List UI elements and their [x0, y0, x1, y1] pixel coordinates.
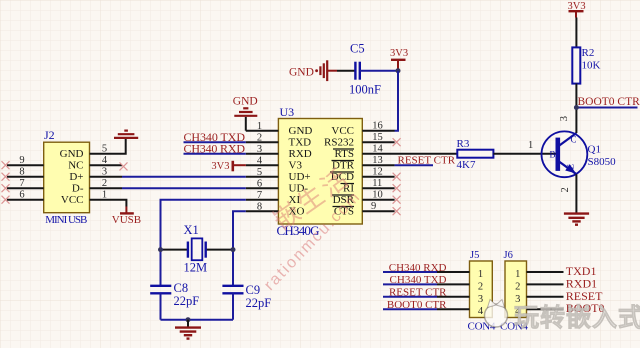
svg-text:B: B	[550, 150, 556, 160]
svg-text:D-: D-	[72, 182, 84, 194]
J2 pin 5 to ground	[90, 139, 126, 154]
no-connect X on U3 right pins 15,12,11,10,9	[393, 138, 401, 215]
emitter wire down to ground	[575, 174, 577, 213]
U3 pin numbers right	[371, 121, 383, 213]
wire R2 to BOOT0 junction	[575, 84, 577, 108]
J5 pins	[437, 272, 470, 309]
svg-text:TXD: TXD	[289, 136, 312, 148]
svg-text:10K: 10K	[582, 60, 601, 72]
J2 pin 3 D+ pin	[90, 176, 123, 178]
svg-text:玩转嵌入式: 玩转嵌入式	[514, 303, 640, 332]
svg-text:CH340 RXD: CH340 RXD	[389, 262, 447, 274]
U3 pin numbers left	[257, 121, 263, 213]
power port VUSB	[125, 207, 127, 214]
svg-text:RTS: RTS	[334, 148, 354, 160]
transistor Q1 S8050 (NPN)	[542, 131, 588, 177]
svg-text:16: 16	[372, 121, 383, 132]
svg-text:Q1: Q1	[588, 144, 601, 156]
overlines on active-low names	[330, 149, 354, 207]
resistor R2 10K	[572, 47, 580, 83]
svg-text:R3: R3	[457, 138, 470, 150]
svg-text:UD+: UD+	[289, 171, 311, 183]
watermark bottom right	[485, 300, 640, 333]
svg-text:RXD: RXD	[289, 148, 312, 160]
svg-text:2: 2	[515, 281, 520, 292]
capacitor C9	[222, 286, 243, 294]
svg-text:CH340 TXD: CH340 TXD	[390, 274, 447, 286]
svg-text:3: 3	[257, 144, 262, 155]
junction node XI/crystal	[158, 247, 163, 252]
svg-text:D+: D+	[69, 171, 83, 183]
svg-text:100nF: 100nF	[349, 83, 381, 97]
svg-text:1: 1	[478, 269, 483, 280]
wire XI (U3 pin7) left and down	[161, 200, 246, 286]
J6 pins	[527, 272, 564, 309]
wire D+ to U3 UD+	[122, 176, 246, 178]
svg-text:12: 12	[372, 167, 383, 178]
net label CH340 RXD (U3 pin3)	[184, 153, 246, 155]
wire XO (U3 pin8) left and down	[233, 211, 246, 285]
J2 pin 1 VCC to VUSB	[90, 200, 127, 207]
capacitor C5	[355, 62, 359, 80]
svg-text:2: 2	[478, 281, 483, 292]
wire junction down to U3 pin16	[395, 71, 399, 131]
svg-text:C5: C5	[350, 42, 365, 56]
svg-text:VUSB: VUSB	[112, 214, 141, 226]
junction 3V3/C5 node	[396, 68, 401, 73]
U3 pin names right	[324, 125, 355, 218]
svg-text:S8050: S8050	[588, 156, 617, 168]
junction bottom rail	[186, 317, 191, 322]
svg-text:5: 5	[257, 167, 262, 178]
svg-text:E: E	[566, 164, 576, 170]
svg-text:C: C	[571, 135, 577, 145]
capacitor C8	[150, 286, 171, 294]
wire 3V3 to R2	[575, 18, 577, 48]
svg-text:CH340 RXD: CH340 RXD	[184, 142, 246, 156]
wire R3 to Q1 base, pin 1	[493, 153, 556, 155]
svg-text:9: 9	[371, 201, 376, 212]
ground (above J2 pin5)	[114, 131, 138, 138]
svg-text:22pF: 22pF	[246, 296, 272, 310]
svg-text:14: 14	[372, 144, 383, 155]
wire BOOT0 CTR	[576, 107, 637, 109]
svg-text:4K7: 4K7	[457, 159, 476, 171]
wire GND to C5	[337, 70, 355, 72]
ground (Q1 emitter)	[564, 214, 589, 225]
svg-text:3: 3	[559, 116, 570, 121]
ground (crystal)	[187, 320, 189, 327]
svg-text:11: 11	[372, 178, 382, 189]
svg-text:VCC: VCC	[61, 194, 84, 206]
IC U3 CH340G body	[278, 119, 362, 225]
J2 left pins (6-9) with no-connect X	[7, 165, 44, 200]
svg-text:2: 2	[560, 187, 571, 192]
svg-text:J5: J5	[470, 250, 479, 261]
svg-text:3: 3	[478, 294, 483, 305]
svg-text:4: 4	[478, 306, 484, 317]
watermark center	[261, 161, 364, 293]
svg-text:X1: X1	[184, 223, 199, 237]
svg-text:7: 7	[257, 190, 262, 201]
junction BOOT0 node	[574, 105, 579, 110]
svg-text:J2: J2	[44, 128, 55, 142]
J2 pin names	[60, 148, 84, 206]
svg-text:3V3: 3V3	[390, 48, 408, 59]
svg-text:NC: NC	[68, 159, 83, 171]
bottom rail wire	[161, 319, 234, 321]
svg-text:BOOT0 CTR: BOOT0 CTR	[387, 299, 447, 311]
svg-text:13: 13	[372, 155, 383, 166]
svg-text:GND: GND	[289, 125, 313, 137]
svg-text:J6: J6	[504, 250, 513, 261]
svg-text:3V3: 3V3	[211, 161, 229, 172]
J2 left pin numbers	[19, 155, 24, 201]
svg-text:12M: 12M	[184, 261, 208, 275]
U3 pin names left	[289, 125, 313, 218]
svg-text:BOOT0 CTR: BOOT0 CTR	[578, 96, 640, 108]
resistor R3 4K7	[457, 150, 493, 158]
svg-text:22pF: 22pF	[174, 294, 200, 308]
wire C5 to junction	[360, 70, 398, 72]
J2 pin 2 D- pin	[90, 187, 123, 189]
svg-text:10: 10	[372, 190, 383, 201]
svg-text:15: 15	[372, 132, 383, 143]
junction node XO/crystal	[231, 247, 236, 252]
svg-text:4: 4	[257, 156, 263, 167]
crystal X1	[161, 249, 188, 251]
svg-text:RESET CTR: RESET CTR	[389, 287, 447, 299]
wire RESET CTR stub (U3 pin13)	[395, 164, 433, 166]
svg-text:1: 1	[528, 140, 533, 151]
svg-text:8: 8	[257, 202, 262, 213]
power port GND (left of C5)	[315, 60, 337, 81]
svg-text:6: 6	[257, 179, 262, 190]
collector wire up	[575, 108, 577, 134]
J2 pin 4 (NC)	[90, 164, 123, 166]
J5 wires	[383, 272, 437, 309]
svg-text:R2: R2	[582, 47, 595, 59]
svg-text:1: 1	[515, 269, 520, 280]
svg-text:RESET CTR: RESET CTR	[398, 155, 456, 167]
svg-text:V3: V3	[289, 159, 303, 171]
svg-text:2: 2	[257, 133, 262, 144]
svg-text:GND: GND	[233, 96, 258, 108]
svg-text:1: 1	[257, 121, 262, 132]
svg-text:VCC: VCC	[331, 125, 354, 137]
svg-text:GND: GND	[289, 66, 314, 78]
svg-text:GND: GND	[60, 148, 84, 160]
svg-text:U3: U3	[280, 105, 295, 119]
wire D- to U3 UD-	[122, 187, 246, 189]
wires caps to bottom rail	[160, 293, 162, 319]
J2 right pin numbers	[102, 144, 108, 201]
svg-text:MINI USB: MINI USB	[45, 214, 87, 226]
svg-text:RS232: RS232	[324, 136, 354, 148]
net label CH340 TXD (U3 pin2)	[184, 141, 246, 143]
U3 left pins 1-8	[246, 131, 279, 212]
U3 right pins 16-9	[362, 131, 457, 212]
